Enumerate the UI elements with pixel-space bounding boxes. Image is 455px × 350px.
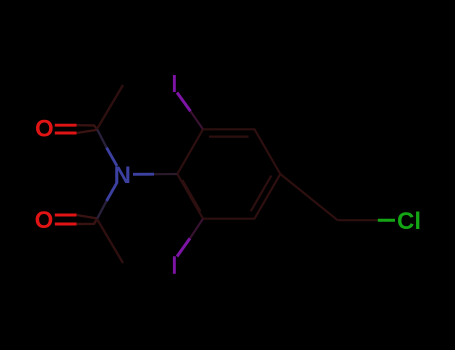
svg-text:O: O — [35, 116, 54, 143]
I bottom — [173, 256, 176, 274]
benzene ring (carbon bonds, dark maroon) — [177, 129, 280, 218]
dark halves — [77, 125, 97, 129]
N-C(=O) bond: blue half near N, dark half — [107, 148, 118, 167]
svg-text:O: O — [35, 207, 54, 234]
chain ring->CH2->CH2 (dark) — [280, 174, 378, 220]
svg-text:Cl: Cl — [397, 208, 421, 235]
CH3 bond — [97, 85, 123, 129]
aromatic inner line top (C2-C3) — [209, 136, 249, 138]
N-ring bond: blue half then dark half — [133, 173, 154, 176]
aromatic inner line lower-left (C6-C1) — [182, 180, 200, 212]
I top — [173, 75, 176, 92]
green half bond to Cl — [378, 219, 395, 222]
C=O double bond: red halves — [55, 124, 77, 127]
aromatic inner line lower-right (C4-C5) — [251, 176, 271, 212]
